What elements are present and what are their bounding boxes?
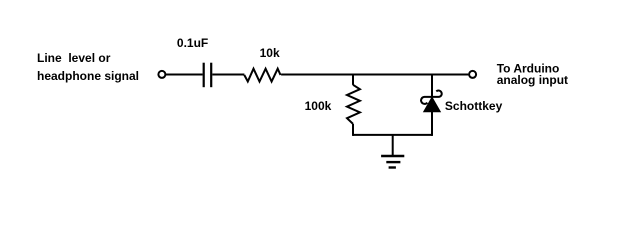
resistor R1 10k xyxy=(244,69,280,82)
wire xyxy=(352,124,354,136)
svg-text:100k: 100k xyxy=(305,99,332,113)
wire xyxy=(212,74,244,76)
wire xyxy=(352,74,354,85)
svg-text:Schottkey: Schottkey xyxy=(445,99,503,113)
node OUT label xyxy=(497,62,568,87)
wire xyxy=(431,74,433,98)
wire xyxy=(281,74,468,76)
wire xyxy=(431,112,433,136)
wire ground stem xyxy=(392,135,394,156)
terminal IN xyxy=(158,71,165,78)
terminal OUT xyxy=(469,71,476,78)
wire xyxy=(166,74,203,76)
wire bottom rail xyxy=(353,134,432,136)
capacitor C1 0.1uF xyxy=(204,63,212,87)
svg-text:0.1uF: 0.1uF xyxy=(177,36,208,50)
svg-text:headphone signal: headphone signal xyxy=(37,69,139,83)
node IN label xyxy=(37,51,139,83)
resistor R2 100k xyxy=(347,85,360,124)
svg-text:10k: 10k xyxy=(260,46,280,60)
svg-text:analog input: analog input xyxy=(497,73,568,87)
svg-text:Line level or: Line level or xyxy=(37,51,111,65)
diode D1 Schottky xyxy=(421,91,442,112)
ground xyxy=(381,156,404,168)
